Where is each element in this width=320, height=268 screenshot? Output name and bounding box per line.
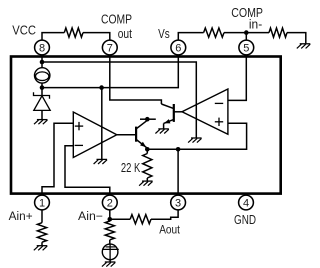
zener diode D1 cathode bar (34, 92, 50, 99)
svg-text:4: 4 (243, 198, 249, 210)
label Vs (158, 27, 170, 41)
wire VCC rail to comparator supply (42, 62, 196, 138)
node opamp supply junction (99, 85, 104, 90)
resistor R2 (Vs to COMP in-) (204, 28, 224, 37)
resistor R7 (Ain- to Aout) (130, 215, 151, 224)
svg-text:in-: in- (249, 17, 262, 31)
node COMPIN junction (244, 30, 249, 35)
pin 3 Aout (171, 195, 186, 210)
wire pin5 to comparator - input (228, 55, 246, 101)
svg-text:2: 2 (107, 198, 113, 210)
label COMP (out) (101, 13, 132, 27)
wire Vs rail (to pin 6) (42, 55, 178, 88)
resistor R3 (COMP in- to ground) (269, 28, 287, 37)
label Aout (159, 225, 180, 237)
wire pin3 lead (177, 149, 179, 195)
svg-text:8: 8 (39, 43, 45, 55)
wire node Ain- to R6 (109, 219, 111, 221)
wire Q2 emitter to ground (163, 123, 165, 128)
wire node COMPIN to R3 (246, 32, 269, 34)
wire op-amp U1 supply/ground line (101, 88, 103, 160)
pin 7 COMP out (102, 40, 117, 55)
wire R2 to node COMPIN (224, 32, 246, 34)
ground 22K (139, 181, 153, 186)
label GND (234, 213, 256, 227)
transistor Q2 emitter (164, 119, 174, 123)
resistor R4 22K (143, 154, 152, 179)
svg-text:5: 5 (243, 43, 249, 55)
transistor Q1 emitter (136, 139, 147, 148)
node Ain- junction (108, 217, 113, 222)
wire Q1 emitter to R22k (146, 149, 148, 153)
ground top-right (297, 44, 311, 49)
svg-text:Vs: Vs (158, 27, 170, 41)
resistor R6 (Ain- to I2) (105, 221, 114, 240)
current source I1 lead bottom (41, 83, 43, 88)
transistor Q1 collector (136, 120, 147, 129)
node Q1 collector junction (145, 117, 150, 122)
wire pin5 lead up (245, 33, 247, 41)
transistor Q2 base bar (173, 104, 175, 122)
svg-text:GND: GND (234, 213, 256, 227)
transistor Q2 collector (161, 104, 173, 109)
wire I2 to ground (109, 260, 111, 262)
wire pin8 to R1 (VCC rail) (42, 33, 64, 41)
pin 8 VCC (35, 40, 50, 55)
zener diode D1 triangle (34, 96, 50, 111)
ground Q2 emitter (155, 129, 169, 134)
ground comparator supply (188, 138, 202, 143)
svg-text:Aout: Aout (159, 225, 180, 237)
svg-text:out: out (118, 27, 133, 41)
pin 1 Ain+ (35, 195, 50, 210)
op-amp U1 minus sign (75, 144, 83, 146)
wire pin8 into package (41, 55, 43, 62)
pin 2 Ain- (102, 195, 117, 210)
wire U1 output to Q1 base (117, 134, 136, 136)
zener diode D1 anode lead (41, 110, 43, 119)
wire pin7 to Q2 collector (110, 55, 162, 104)
ground Ain+ (34, 246, 48, 251)
label VCC (12, 24, 36, 38)
wire pin6 to R2 (178, 33, 203, 41)
wire Q2 base to comparator output (174, 111, 182, 113)
wire op-amp - input to pin2 (65, 146, 110, 196)
node Q1 collector stub (140, 118, 156, 120)
wire pin2 lead down (109, 210, 111, 219)
svg-text:3: 3 (175, 198, 181, 210)
svg-text:Ain−: Ain− (78, 211, 103, 223)
comparator U2 plus sign (215, 118, 223, 126)
op-amp U1 triangle (73, 112, 117, 158)
pin 6 Vs (171, 40, 186, 55)
wire R1 to pin7 (83, 33, 110, 41)
label 22K (121, 161, 141, 175)
label Ain- (78, 211, 103, 223)
transistor Q1 base bar (135, 127, 137, 142)
wire R3 to ground (287, 33, 306, 44)
svg-text:6: 6 (175, 43, 181, 55)
ground zener (34, 120, 48, 125)
IC package body outline (11, 57, 281, 194)
pin 4 GND (239, 195, 254, 210)
wire pin1 to op-amp + input (42, 123, 73, 195)
op-amp U1 plus sign (75, 122, 83, 130)
ground Ain- source (102, 262, 116, 267)
current source I1 lead top (41, 62, 43, 68)
wire Q1 emitter to comparator + input (147, 123, 246, 149)
node VCC-int junction (40, 60, 45, 65)
transistor Q2 emitter arrow (164, 119, 170, 123)
svg-text:COMP: COMP (101, 13, 132, 27)
zener diode D1 lead (41, 88, 43, 96)
pin 5 COMP in- (239, 40, 254, 55)
current source I1 (35, 68, 50, 83)
svg-text:1: 1 (39, 198, 45, 210)
node Vs-int junction (40, 85, 45, 90)
wire R6 to current source I2 (109, 240, 111, 244)
svg-text:7: 7 (107, 43, 113, 55)
label out (118, 27, 133, 41)
comparator U2 triangle (182, 89, 228, 134)
svg-text:22 K: 22 K (121, 161, 141, 175)
wire R7 to pin3 (151, 210, 178, 219)
node Q1 emitter junction (145, 147, 150, 152)
wire node Ain- to R7 (110, 218, 130, 220)
svg-text:VCC: VCC (12, 24, 36, 38)
label COMP (in-) (231, 6, 263, 20)
resistor R5 (Ain+ to ground) (37, 223, 46, 243)
comparator U2 minus sign (215, 102, 223, 104)
label Ain+ (9, 211, 33, 223)
wire pin1 to R5 (41, 210, 43, 223)
wire R5 to ground (41, 242, 43, 245)
svg-text:Ain+: Ain+ (9, 211, 33, 223)
ground op-amp U1 (94, 159, 108, 164)
current source I2 (102, 244, 119, 261)
label in- (249, 17, 262, 31)
node Aout junction (176, 147, 181, 152)
transistor Q1 emitter arrow (140, 142, 146, 148)
wire R22k to ground (146, 178, 148, 181)
resistor R1 (VCC to COMP out) (64, 28, 83, 37)
